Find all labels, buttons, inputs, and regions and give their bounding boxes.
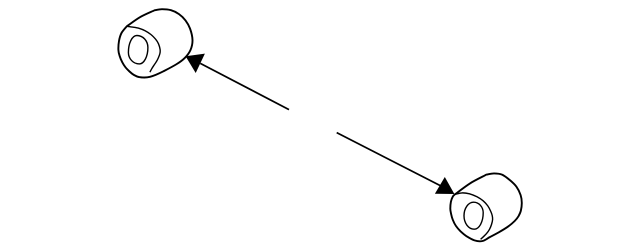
leader line segment 2 bbox=[337, 133, 441, 186]
arrowhead 2 bbox=[435, 177, 455, 194]
bushing B1 (upper left) bbox=[118, 9, 192, 77]
bushing B2 (lower right) bbox=[450, 173, 522, 241]
bushing B2 body outline bbox=[450, 173, 522, 241]
bushing B2 face rim bbox=[455, 193, 493, 239]
bushing B2 bore hole bbox=[464, 202, 483, 229]
arrowhead 1 bbox=[186, 54, 205, 73]
bushing B1 face rim bbox=[127, 26, 160, 72]
bushing B1 bore hole bbox=[128, 36, 148, 64]
leader line segment 1 bbox=[200, 63, 289, 109]
bushing B1 body outline bbox=[118, 9, 192, 77]
